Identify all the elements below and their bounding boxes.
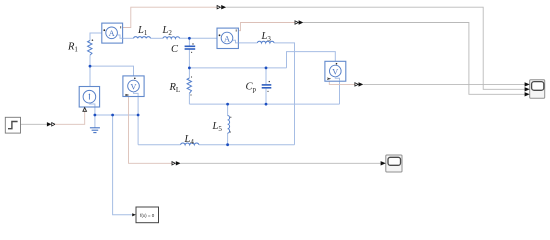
arrow filled V2 — [359, 82, 364, 86]
wire V1 bottom to bus — [137, 96, 139, 115]
capacitor Cp — [262, 85, 272, 88]
node Cp bottom — [265, 103, 268, 106]
inductor L2 — [163, 37, 180, 39]
wire A1.right to L1 — [123, 37, 134, 39]
inductor L3 — [257, 41, 274, 43]
wire node N1 to current source top — [89, 66, 91, 86]
scope 1 (3 inputs) — [525, 80, 545, 99]
wire step output (gray) — [21, 123, 48, 125]
resistor RL — [187, 78, 191, 93]
wire bottom rail y=144.7 — [138, 144, 180, 146]
wire A1 signal (gray part) to scope input2 — [226, 7, 525, 89]
ammeter U_A2 — [217, 28, 238, 48]
scope 2 (1 input) — [381, 155, 402, 172]
wire bus to ground — [94, 115, 96, 128]
step source block — [5, 117, 20, 133]
tiny polarity marks — [92, 39, 270, 132]
arrow filled A2 — [299, 20, 304, 24]
node L5 top — [226, 103, 229, 106]
wire Cp top lead — [265, 68, 267, 84]
node N1 (R1/V1/source) — [89, 65, 92, 68]
ammeter U_A1 — [102, 23, 123, 43]
wire R1 bottom to node N1 — [89, 55, 91, 66]
svg-text:V: V — [131, 82, 137, 91]
wire V2 bottom drop — [339, 80, 341, 105]
svg-text:C: C — [171, 44, 179, 55]
wire L1 to L2 — [151, 37, 163, 39]
node N2 (C top tap) — [188, 37, 191, 40]
wire V1 signal (gray part) to scope2 — [181, 162, 381, 164]
wire A2 signal (gray part) to scope input3 — [303, 23, 525, 95]
wire node N2 down to capacitor C — [188, 38, 190, 46]
node Cp top — [265, 67, 268, 70]
inductor L5 (vertical, bumps right) — [228, 116, 230, 134]
wire bus y=115 — [94, 114, 139, 116]
svg-text:A: A — [224, 34, 230, 43]
wire bus to bottom rail (L4 branch) — [137, 115, 139, 145]
wire A2.right to L3 — [238, 42, 257, 44]
arrow open A2 — [295, 21, 298, 24]
control input triangle port — [83, 108, 87, 112]
arrow filled step — [47, 122, 52, 126]
wire current source bottom to bus — [94, 107, 96, 116]
wire step to source control (salmon) — [55, 112, 85, 125]
bus node V1/L4 — [137, 114, 140, 117]
voltmeter U_V2 — [325, 61, 346, 81]
arrow filled V1 — [176, 161, 181, 165]
wire V2 signal (gray part) to scope input1 — [363, 83, 525, 85]
bus node ground — [94, 114, 97, 117]
node N3 (C bottom) — [188, 67, 191, 70]
svg-text:V: V — [332, 67, 338, 76]
svg-text:f(x) = 0: f(x) = 0 — [140, 213, 155, 218]
wire L5 bottom lead — [227, 133, 229, 145]
wire L2 to node N2 to A2.left — [180, 37, 217, 39]
wire A1 signal (salmon part) — [123, 7, 217, 27]
node L5 bottom — [226, 143, 229, 146]
solver block f(x)=0 — [132, 207, 158, 223]
wire rail end up to V2 top branch — [287, 52, 336, 68]
svg-text:A: A — [109, 29, 115, 38]
wire RL bottom to rail N4 — [188, 93, 190, 104]
wire V1 signal (salmon part) — [129, 97, 173, 164]
wire rail y=104.1 RL..V2drop — [189, 103, 339, 105]
wire L3 right to drop at x=294.5 — [274, 43, 294, 145]
arrow filled A1 — [221, 5, 226, 9]
wire node N3 down to RL top — [188, 68, 190, 78]
arrow open V2 — [355, 83, 358, 86]
inductor L4 — [181, 143, 199, 145]
inductor L1 — [134, 37, 151, 39]
wire V2 signal (salmon part) — [329, 81, 354, 84]
wire node N1 to V1 top — [90, 66, 134, 76]
wire C bottom to node N3 — [188, 49, 190, 68]
wire L5 top lead — [227, 104, 229, 115]
bus node f(x) — [111, 114, 114, 117]
voltmeter U_V1 — [123, 76, 144, 97]
wire A1.left to R1 top — [90, 33, 102, 41]
controlled current source U_I — [79, 87, 99, 112]
arrow open A1 — [217, 6, 220, 9]
capacitor C — [185, 46, 196, 49]
ground — [90, 128, 100, 133]
wire bus to f(x)=0 block — [113, 115, 132, 215]
wire Cp bottom lead — [265, 89, 267, 105]
arrow open step — [52, 123, 55, 126]
arrow open V1 — [172, 162, 175, 165]
wire A2 signal (salmon part) — [238, 23, 294, 31]
resistor R1 — [88, 41, 92, 56]
wire node N3 rail to x=286.5 — [189, 67, 286, 69]
